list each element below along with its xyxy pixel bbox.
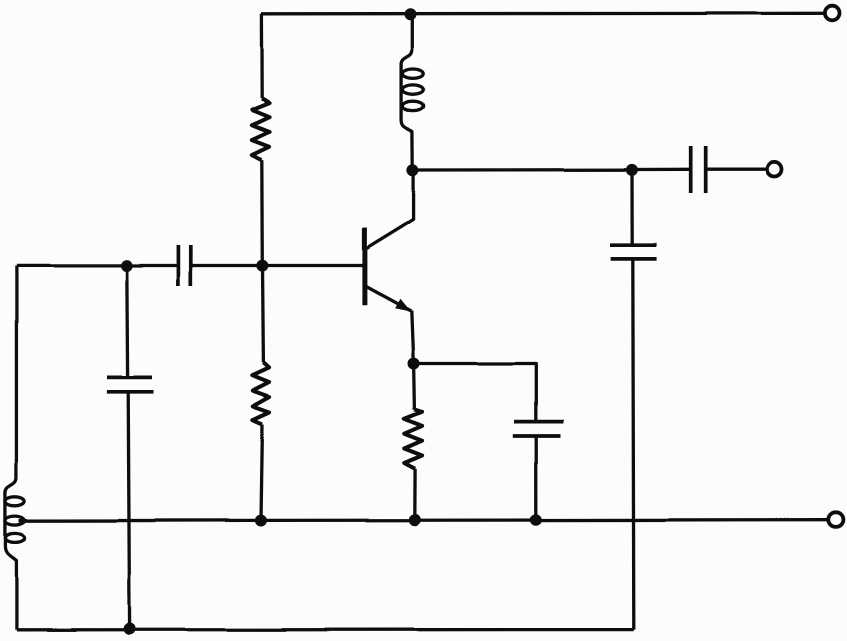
node R2 ground junction [254, 515, 266, 527]
wire input node to C1 [127, 264, 179, 267]
terminal output right [767, 162, 782, 177]
node emitter junction [408, 358, 420, 370]
capacitor C2 [107, 376, 152, 380]
wire collector node to output node [413, 168, 632, 172]
wire base node to transistor base [262, 264, 364, 267]
resistor R1 [252, 98, 269, 159]
resistor R3 [404, 410, 422, 469]
wire C5 down to bottom rail [633, 258, 634, 629]
wire C4 to output terminal [705, 168, 767, 171]
wire R1 bottom to base node [260, 160, 264, 266]
terminal top-right [825, 6, 840, 21]
node collector junction [407, 164, 419, 176]
node output junction [626, 164, 638, 176]
wire input node down to C2 [125, 266, 129, 378]
wire C2 down to bottom node [128, 392, 129, 629]
ground rail wire [19, 520, 828, 521]
wire top supply rail [261, 12, 825, 16]
node R3 ground junction [409, 514, 421, 526]
node input junction [121, 260, 133, 272]
wire emitter node to C3 [414, 364, 536, 421]
wire emitter down to node [411, 311, 413, 364]
wire C3 down to ground [535, 436, 538, 520]
wire left edge down to L2 [15, 265, 18, 478]
node C3 ground junction [530, 514, 542, 526]
node bottom junction [124, 623, 136, 635]
wire emitter node down to R3 [412, 364, 416, 410]
wire left edge to input node [16, 264, 126, 267]
resistor R2 [252, 362, 269, 424]
transistor Q1 [364, 170, 413, 311]
wire output node down to C5 [630, 170, 634, 245]
wire R2 top from base node [261, 266, 265, 363]
wire bottom rail [16, 628, 633, 632]
inductor L1 [402, 14, 413, 170]
capacitor C3 [514, 420, 564, 424]
wire output node to C4 [632, 168, 690, 171]
terminal bottom-right [828, 512, 843, 527]
wire left branch down from top rail [260, 14, 264, 98]
wire R2 down to ground [261, 424, 263, 520]
wire R3 down to ground [413, 469, 417, 520]
node top junction [405, 8, 417, 20]
wire C1 to base node [191, 264, 262, 267]
inductor L2 [5, 478, 16, 630]
capacitor C5 [610, 243, 657, 247]
node base junction [256, 260, 268, 272]
capacitor C4 [688, 146, 692, 193]
capacitor C1 [177, 245, 181, 286]
